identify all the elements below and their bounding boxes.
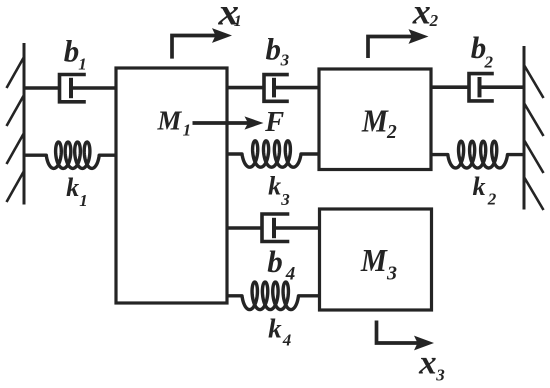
damper b2 piston <box>478 77 482 97</box>
spring k2 <box>431 141 524 168</box>
damper b2 cylinder <box>469 74 492 101</box>
force F arrow <box>193 116 264 129</box>
spring k3 <box>227 141 319 167</box>
wire mass M1 to damper b4 <box>227 226 262 230</box>
mass M1 <box>116 68 227 303</box>
svg-text:3: 3 <box>280 190 290 209</box>
svg-text:3: 3 <box>280 51 290 70</box>
damper b3 piston <box>272 78 276 98</box>
svg-text:1: 1 <box>79 191 88 210</box>
mass M2 <box>319 69 431 170</box>
svg-text:k: k <box>473 172 486 201</box>
right wall <box>524 46 544 210</box>
spring k4 <box>227 282 320 310</box>
wire damper b1 to mass M1 <box>71 86 116 90</box>
svg-text:M: M <box>360 243 388 278</box>
svg-text:b: b <box>267 244 283 279</box>
wire damper b2 to right wall <box>480 85 524 89</box>
svg-text:3: 3 <box>435 365 445 384</box>
arrow x3 <box>377 321 435 351</box>
wire damper b4 to mass M3 <box>274 226 320 230</box>
svg-text:M: M <box>157 106 183 136</box>
svg-text:1: 1 <box>234 13 242 30</box>
damper b3 cylinder <box>264 75 287 102</box>
mass M3 <box>320 209 432 310</box>
wire damper b3 to mass M2 <box>274 86 319 90</box>
svg-text:x: x <box>412 0 431 31</box>
svg-text:4: 4 <box>282 331 292 350</box>
svg-text:2: 2 <box>487 190 497 209</box>
svg-text:3: 3 <box>386 263 397 285</box>
damper b1 piston <box>69 78 73 98</box>
left wall <box>7 43 25 205</box>
svg-text:M: M <box>361 103 389 138</box>
svg-text:k: k <box>268 171 281 200</box>
wire mass M2 to damper b2 <box>431 85 469 89</box>
svg-text:b: b <box>64 34 79 69</box>
damper b4 piston <box>272 218 276 238</box>
spring k1 <box>24 142 117 168</box>
damper b4 cylinder <box>262 214 288 242</box>
svg-text:1: 1 <box>183 120 192 139</box>
svg-text:2: 2 <box>386 122 397 143</box>
svg-text:2: 2 <box>429 11 439 30</box>
svg-text:k: k <box>66 173 79 202</box>
svg-text:k: k <box>268 313 282 343</box>
svg-text:x: x <box>418 344 437 381</box>
arrow x2 <box>368 29 429 58</box>
svg-text:b: b <box>266 32 282 67</box>
svg-text:1: 1 <box>78 55 87 74</box>
damper b1 cylinder <box>60 75 85 102</box>
wire left wall to damper b1 <box>24 86 60 90</box>
svg-text:F: F <box>264 107 284 138</box>
svg-text:2: 2 <box>484 52 494 71</box>
wire mass M1 to damper b3 <box>227 86 264 90</box>
arrow x1 <box>172 28 232 58</box>
